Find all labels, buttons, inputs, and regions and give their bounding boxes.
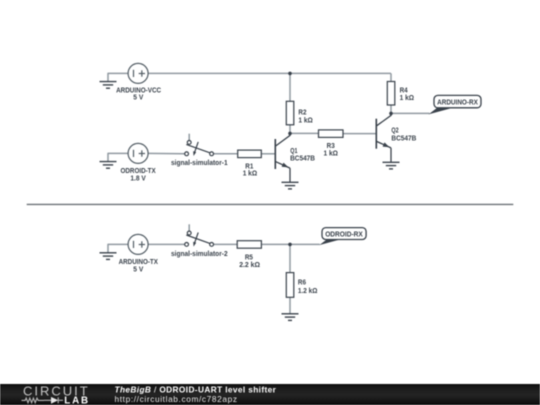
svg-text:1.8 V: 1.8 V [130, 173, 146, 182]
svg-text:5 V: 5 V [133, 264, 143, 273]
svg-text:5 V: 5 V [133, 93, 143, 102]
svg-text:2.2 kΩ: 2.2 kΩ [239, 260, 260, 269]
svg-text:1 kΩ: 1 kΩ [298, 116, 313, 125]
svg-text:signal-simulator-1: signal-simulator-1 [171, 158, 228, 167]
svg-text:1.2 kΩ: 1.2 kΩ [298, 286, 318, 295]
svg-text:1 kΩ: 1 kΩ [243, 169, 258, 178]
svg-text:signal-simulator-2: signal-simulator-2 [171, 249, 228, 258]
svg-text:1 kΩ: 1 kΩ [400, 93, 415, 102]
svg-text:http://circuitlab.com/c782apz: http://circuitlab.com/c782apz [115, 394, 238, 404]
svg-text:BC547B: BC547B [391, 133, 416, 142]
svg-text:ARDUINO-RX: ARDUINO-RX [437, 98, 478, 107]
svg-text:LAB: LAB [64, 395, 90, 405]
svg-text:TheBigB / ODROID-UART level sh: TheBigB / ODROID-UART level shifter [115, 384, 277, 394]
svg-text:ODROID-RX: ODROID-RX [325, 230, 363, 239]
svg-text:BC547B: BC547B [290, 154, 315, 163]
svg-text:1 kΩ: 1 kΩ [324, 149, 339, 158]
